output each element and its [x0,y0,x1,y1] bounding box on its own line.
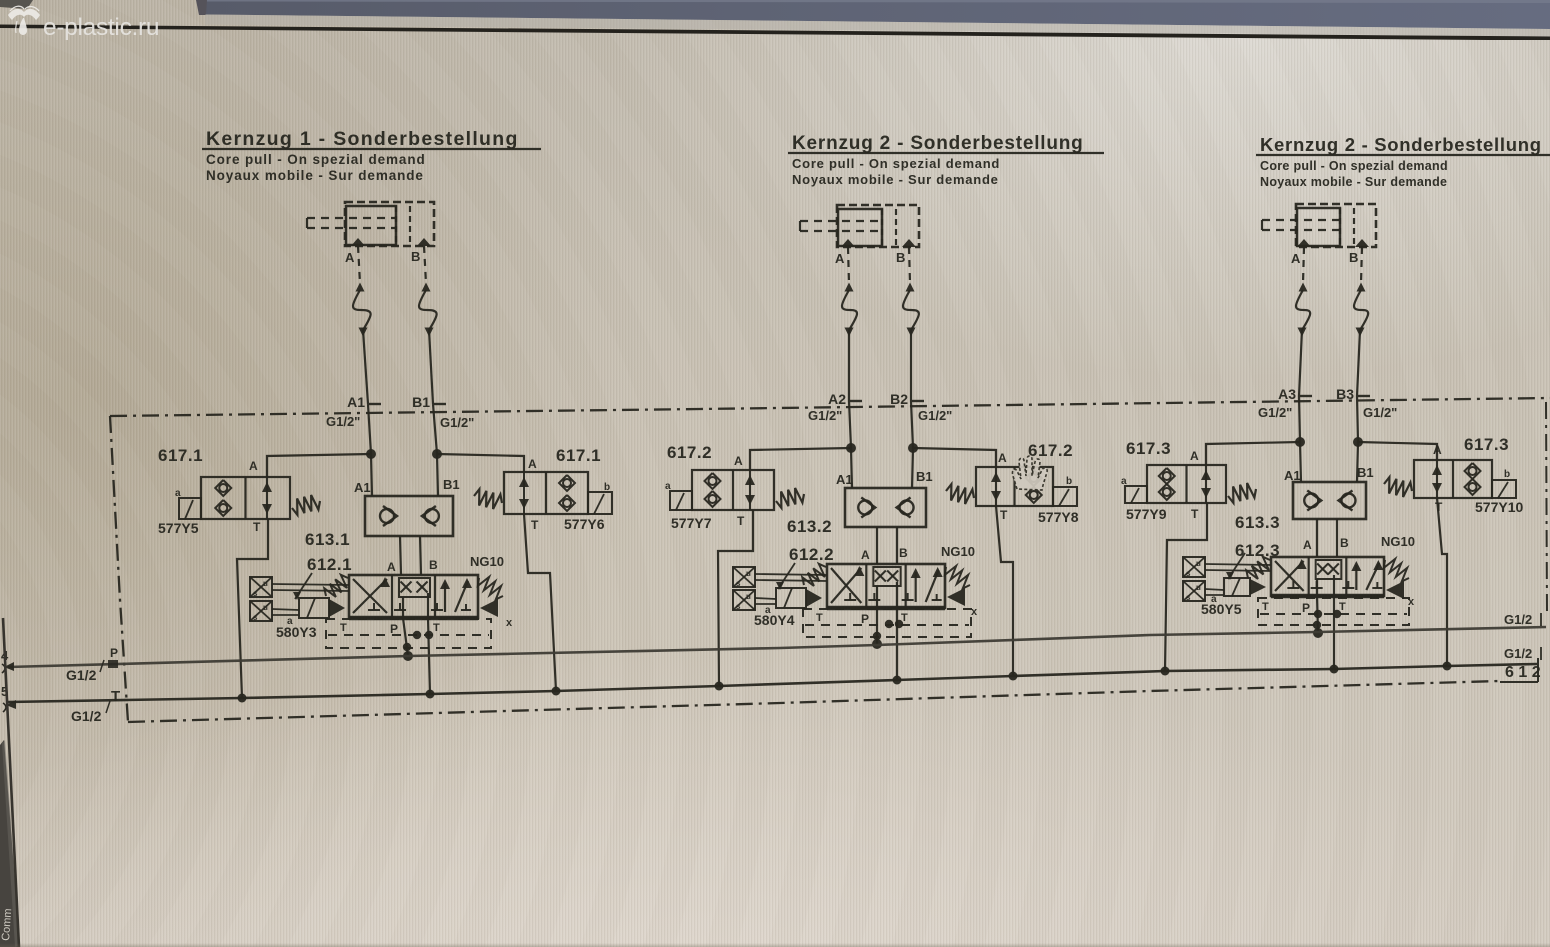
pilot boxes of 612.3 [1183,557,1205,577]
svg-text:A1: A1 [1284,468,1301,483]
pilot valve 617.3 right (577Y10) [1414,460,1492,498]
svg-text:T: T [816,612,823,624]
svg-text:e-plastic.ru: e-plastic.ru [43,14,159,41]
manifold enclosure bottom (dash-dot) [128,681,1500,722]
svg-text:u: u [263,579,268,588]
svg-text:G1/2": G1/2" [808,408,842,423]
pilot valve 617.1 right (577Y6) [504,472,588,514]
cylinder 2 port lines with hoses [848,247,849,283]
svg-text:617.2: 617.2 [1028,441,1073,460]
svg-text:613.3: 613.3 [1235,513,1280,532]
svg-text:613.1: 613.1 [305,530,350,549]
svg-text:T: T [1262,601,1269,613]
svg-text:u: u [746,569,751,578]
svg-text:b: b [604,482,610,493]
wires 613.3 to main valve [1316,519,1318,557]
svg-text:A: A [835,251,845,266]
subplate of 612.1 (dashed) [326,619,491,648]
svg-text:G1/2: G1/2 [71,708,102,724]
P rail left port [4,662,14,671]
svg-text:s: s [1186,569,1191,578]
pilot valve 617.2 left (577Y7) [692,470,774,510]
svg-text:b: b [1066,476,1072,487]
wires 613.1 to main valve [400,536,401,575]
svg-text:u: u [746,592,751,601]
svg-text:T: T [111,688,120,705]
svg-text:580Y4: 580Y4 [754,612,795,628]
svg-text:577Y9: 577Y9 [1126,506,1167,522]
dark corner patch top-left [0,0,33,9]
svg-text:P: P [1302,601,1310,615]
check valve block 613.3 [1293,482,1366,519]
wire 617.2 T to tank rail [718,510,753,686]
cylinder 2 (core pull cylinder) [837,205,919,247]
svg-text:B2: B2 [890,391,908,407]
wires into 613.2 [851,448,852,488]
svg-text:NG10: NG10 [1381,534,1415,549]
pilot valve 617.1 left (577Y5) [201,477,290,519]
solenoid a of 612.3 (580Y5) [1224,578,1250,596]
pressure rail P [8,627,1546,667]
svg-text:T: T [737,514,745,528]
solenoid a of 612.1 (580Y3) [299,598,329,618]
svg-text:Kernzug 1 - Sonderbestellung: Kernzug 1 - Sonderbestellung [206,128,519,150]
svg-text:s: s [736,579,741,588]
wires into 613.3 [1300,442,1301,482]
svg-text:a: a [665,481,671,492]
svg-text:P: P [390,622,398,636]
svg-text:B: B [899,546,908,560]
wires 613.2 to main valve [876,527,878,564]
svg-text:Kernzug 2 - Sonderbestellung: Kernzug 2 - Sonderbestellung [792,133,1084,154]
svg-text:T: T [340,622,347,634]
wire 617.3 T to tank rail [1437,498,1447,666]
svg-text:G1/2: G1/2 [66,667,97,683]
wires into 613.1 [371,454,372,496]
svg-text:Core pull - On spezial demand: Core pull - On spezial demand [792,156,1000,171]
wire 617.1 A to junction [267,454,371,477]
manifold enclosure right (dash-dot) [1546,402,1547,614]
svg-text:A1: A1 [354,480,371,495]
svg-text:6 1 2: 6 1 2 [1505,664,1541,681]
wire 617.3 T to tank rail [1165,503,1207,671]
wire 612.2 P to pressure rail [876,608,878,644]
svg-text:G1/2": G1/2" [918,408,952,423]
svg-text:B1: B1 [412,394,430,410]
svg-text:P: P [861,612,869,626]
spring+pilot right of 612.2 [945,566,970,589]
svg-text:613.2: 613.2 [787,517,832,536]
svg-text:u: u [263,603,268,612]
wire 617.3 A to junction [1358,442,1437,460]
cylinder 1 (core pull cylinder) [345,202,434,246]
check valve block 613.1 [365,496,453,536]
wire 617.2 A to junction [750,448,851,470]
svg-text:A: A [345,250,355,265]
pilot boxes of 612.1 [250,577,272,597]
svg-text:617.2: 617.2 [667,443,712,462]
svg-text:G1/2": G1/2" [440,415,474,430]
cylinder 1 port lines with hoses [358,246,360,283]
window corner edge [196,0,207,15]
spring left of 612.1 [324,575,348,597]
svg-text:A1: A1 [836,472,853,487]
wire 617.2 A to junction [913,448,996,467]
wire 617.3 A to junction [1206,442,1300,465]
pilot valve 617.2 right (577Y8) [976,467,1053,506]
wire 617.2 T to tank rail [996,506,1013,676]
spring+pilot right of 612.1 [478,577,503,600]
wire 612.1 T to tank rail [428,618,430,694]
pilot valve 617.3 left (577Y9) [1147,465,1226,503]
wire 612.1 P to pressure rail [403,618,408,656]
svg-text:B: B [429,558,438,572]
svg-text:G1/2": G1/2" [1363,405,1397,420]
cylinder 3 port lines with hoses [1303,247,1304,283]
svg-text:T: T [253,520,261,534]
svg-text:Noyaux mobile - Sur demande: Noyaux mobile - Sur demande [206,168,424,183]
svg-text:G1/2": G1/2" [1258,405,1292,420]
svg-text:577Y6: 577Y6 [564,516,605,532]
svg-text:G1/2: G1/2 [1504,612,1532,627]
directional valve 612.1 NG10 [349,575,478,618]
svg-text:b: b [1504,469,1510,480]
directional valve 612.2 NG10 [827,564,945,608]
svg-text:T: T [1191,507,1199,521]
svg-text:A: A [998,451,1007,465]
pilot wiring 612.2 [755,574,827,575]
svg-text:577Y8: 577Y8 [1038,509,1079,525]
svg-text:A: A [1303,538,1312,552]
spring left of 612.3 [1246,557,1270,579]
svg-text:T: T [1000,508,1008,522]
pilot wiring 612.3 [1205,564,1271,565]
svg-text:Noyaux mobile - Sur demande: Noyaux mobile - Sur demande [792,172,999,187]
window title bar strip [205,0,1550,29]
cylinder 3 (core pull cylinder) [1296,204,1376,247]
svg-text:617.1: 617.1 [556,446,601,465]
manifold enclosure top (dash-dot) [110,398,1550,416]
hand cursor icon near 617.2 [1012,456,1047,490]
svg-text:617.3: 617.3 [1464,435,1509,454]
svg-text:A3: A3 [1278,386,1296,402]
svg-text:G1/2: G1/2 [1504,646,1532,661]
junction dots A2 B2 [846,443,856,453]
svg-text:B: B [1349,250,1358,265]
svg-text:A1: A1 [347,394,365,410]
svg-text:P: P [110,646,118,660]
svg-text:Kernzug 2 - Sonderbestellung: Kernzug 2 - Sonderbestellung [1260,134,1542,155]
e-plastic.ru watermark [4,2,264,42]
svg-text:NG10: NG10 [941,544,975,559]
svg-text:A: A [1190,449,1199,463]
svg-text:A: A [861,548,870,562]
svg-text:u: u [1196,559,1201,568]
svg-text:Core pull - On spezial demand: Core pull - On spezial demand [1260,159,1448,173]
subplate of 612.2 (dashed) [803,609,971,637]
svg-text:B: B [411,249,420,264]
svg-text:617.3: 617.3 [1126,439,1171,458]
pilot boxes of 612.2 [733,567,755,587]
svg-text:A: A [1291,251,1301,266]
svg-text:B1: B1 [443,477,460,492]
svg-text:A2: A2 [828,391,846,407]
svg-text:B1: B1 [1357,465,1374,480]
sheet edge bottom-left [0,0,60,947]
svg-text:a: a [1121,476,1127,487]
subplate of 612.3 (dashed) [1258,598,1409,625]
wire 612.3 P to pressure rail [1317,596,1318,633]
spring+pilot right of 612.3 [1384,559,1409,582]
svg-text:617.1: 617.1 [158,446,203,465]
svg-text:s: s [1186,593,1191,602]
svg-text:612.1: 612.1 [307,555,352,574]
subplate junction dots [413,631,421,639]
wire 617.1 A to junction [437,454,524,472]
svg-text:x: x [971,606,978,618]
svg-text:a: a [175,488,181,499]
svg-text:G1/2": G1/2" [326,414,360,429]
T rail left port [6,700,16,709]
svg-text:s: s [253,589,258,598]
svg-text:A: A [387,560,396,574]
tank rail T [8,664,1537,702]
svg-text:T: T [433,622,440,634]
svg-text:A: A [528,457,537,471]
svg-text:B: B [1340,536,1349,550]
svg-text:NG10: NG10 [470,554,504,569]
svg-text:580Y3: 580Y3 [276,624,317,640]
svg-text:x: x [506,617,513,629]
subplate junction dots [885,620,893,628]
svg-text:Noyaux mobile - Sur demande: Noyaux mobile - Sur demande [1260,175,1447,189]
svg-text:580Y5: 580Y5 [1201,601,1242,617]
manifold enclosure left (dash-dot) [110,416,128,722]
pilot wiring 612.1 [272,584,349,585]
subplate junction dots [1314,610,1322,618]
svg-text:Core pull - On spezial demand: Core pull - On spezial demand [206,152,426,167]
directional valve 612.3 NG10 [1271,557,1384,596]
svg-text:B: B [896,250,905,265]
svg-text:u: u [1196,583,1201,592]
svg-text:s: s [736,602,741,611]
svg-text:s: s [253,613,258,622]
svg-text:577Y7: 577Y7 [671,515,712,531]
svg-text:612.2: 612.2 [789,545,834,564]
svg-text:Comm: Comm [0,908,14,941]
svg-text:577Y5: 577Y5 [158,520,199,536]
svg-text:A: A [249,459,258,473]
svg-text:B1: B1 [916,469,933,484]
check valve block 613.2 [845,488,926,527]
svg-text:T: T [531,518,539,532]
junction dots A1 B1 [366,449,376,459]
solenoid a of 612.2 (580Y4) [776,588,806,608]
spring left of 612.2 [802,564,826,586]
monitor top band [0,0,1550,40]
junction dots A3 B3 [1295,437,1305,447]
dark frame line across [205,15,1550,37]
wire 612.3 T to tank rail [1333,596,1335,669]
wire 617.1 T to tank rail [524,514,556,691]
svg-text:A: A [734,454,743,468]
wire 612.2 T to tank rail [896,608,898,680]
wire 617.1 T to tank rail [237,519,268,698]
svg-text:577Y10: 577Y10 [1475,499,1523,515]
